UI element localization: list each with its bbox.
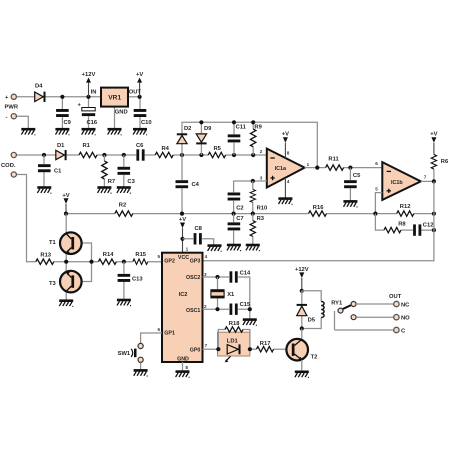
svg-text:D4: D4 xyxy=(35,84,43,90)
ground C5 xyxy=(343,201,357,207)
svg-text:C14: C14 xyxy=(240,270,251,276)
ground IC2 xyxy=(176,372,190,378)
svg-text:C8: C8 xyxy=(195,226,203,232)
ground C9 xyxy=(55,129,69,135)
svg-text:SW1: SW1 xyxy=(118,351,131,357)
svg-text:T1: T1 xyxy=(49,240,57,246)
capacitor C10 xyxy=(134,109,147,117)
node junction D4-C9 xyxy=(60,95,64,99)
svg-text:VR1: VR1 xyxy=(108,95,121,102)
terminal NO xyxy=(394,315,410,322)
svg-text:+V: +V xyxy=(179,217,186,223)
power +V IC1a pin 8 xyxy=(282,131,290,158)
wire IC1b output down to GP3 xyxy=(203,181,434,260)
terminal COD+ xyxy=(11,152,16,157)
svg-text:C5: C5 xyxy=(353,173,361,179)
ground VR1 xyxy=(108,129,122,135)
capacitor C12 xyxy=(413,224,421,235)
power +V (VR1 out) xyxy=(136,72,143,97)
capacitor C8 xyxy=(183,226,214,245)
svg-text:D1: D1 xyxy=(57,143,65,149)
svg-text:R11: R11 xyxy=(328,156,339,162)
terminal C xyxy=(394,327,406,334)
svg-text:C4: C4 xyxy=(192,182,200,188)
power +V bias xyxy=(62,193,69,214)
svg-text:R6: R6 xyxy=(441,159,449,165)
wire GP0 net xyxy=(203,348,292,350)
svg-text:R17: R17 xyxy=(260,341,271,347)
svg-text:R4: R4 xyxy=(162,146,170,152)
svg-text:X1: X1 xyxy=(227,292,235,298)
resistor R14 xyxy=(98,259,116,264)
ground C10 xyxy=(133,129,147,135)
svg-text:R16: R16 xyxy=(313,205,324,211)
terminal COD- xyxy=(11,172,16,177)
svg-text:8: 8 xyxy=(287,151,290,156)
svg-text:C15: C15 xyxy=(240,302,251,308)
svg-text:LD1: LD1 xyxy=(227,338,239,344)
svg-text:OUT: OUT xyxy=(129,89,142,95)
node junction C15 right xyxy=(248,307,252,311)
resistor R1 xyxy=(79,152,97,157)
wire GP1 to SW1 xyxy=(141,333,162,343)
node junction R10 top xyxy=(251,179,255,183)
node junction R7 xyxy=(102,153,106,157)
capacitor C2 xyxy=(228,193,241,201)
svg-text:GND: GND xyxy=(177,356,189,362)
resistor R6 xyxy=(431,155,449,182)
svg-text:C9: C9 xyxy=(64,120,72,126)
svg-text:C16: C16 xyxy=(87,120,98,126)
wire T3 to ground xyxy=(65,291,67,300)
transistor T2 xyxy=(286,339,317,361)
svg-text:+V: +V xyxy=(136,72,143,78)
node junction pin5/R12/R8 xyxy=(373,212,377,216)
node junction D9 bottom xyxy=(199,153,203,157)
ground SW1 xyxy=(134,370,148,376)
svg-text:T2: T2 xyxy=(311,354,318,360)
svg-text:C7: C7 xyxy=(236,216,243,222)
diode D4 xyxy=(35,84,45,102)
svg-text:+V: +V xyxy=(62,193,69,199)
capacitor C13 xyxy=(118,262,144,300)
svg-text:+V: +V xyxy=(282,131,289,137)
svg-text:PWR: PWR xyxy=(5,104,19,110)
node junction C12 right xyxy=(432,228,436,232)
ground C7 xyxy=(227,245,241,251)
wire PWR+ input net to VR1 IN xyxy=(16,96,101,98)
ground C16 xyxy=(82,129,96,135)
wire feedback top net xyxy=(182,122,317,167)
svg-text:+12V: +12V xyxy=(82,72,96,78)
svg-text:7: 7 xyxy=(424,174,427,179)
ground R7 xyxy=(97,188,111,194)
svg-text:R5: R5 xyxy=(214,146,222,152)
node junction coil bottom/T2 collector xyxy=(300,326,304,330)
svg-text:C6: C6 xyxy=(136,143,144,149)
node junction X1 bottom xyxy=(215,307,219,311)
svg-text:OSC1: OSC1 xyxy=(186,308,200,314)
resistor R9 xyxy=(251,122,263,155)
svg-text:R2: R2 xyxy=(119,203,126,209)
node junction C1 xyxy=(42,153,46,157)
svg-text:C1: C1 xyxy=(54,168,62,174)
switch SW1 xyxy=(118,343,144,370)
resistor R10 xyxy=(250,181,267,214)
ground C3 xyxy=(117,188,131,194)
wire D5 leads xyxy=(301,291,303,329)
LED module LD1 xyxy=(218,332,250,362)
svg-text:R12: R12 xyxy=(400,204,411,210)
svg-text:7: 7 xyxy=(205,343,208,348)
capacitor C6 xyxy=(136,149,144,160)
ground C14/C15 xyxy=(243,320,257,326)
power +V VCC IC2 xyxy=(179,217,186,253)
node junction LD1 left xyxy=(216,347,220,351)
svg-text:IC2: IC2 xyxy=(179,292,188,298)
wire C10 leads xyxy=(139,97,141,129)
ground C13 xyxy=(117,300,131,306)
svg-text:8: 8 xyxy=(185,365,188,370)
node junction C11 bottom xyxy=(232,153,236,157)
resistor R2 xyxy=(115,211,133,216)
node junction output IC1a xyxy=(315,166,319,170)
node junction C13 xyxy=(122,260,126,264)
svg-text:GP2: GP2 xyxy=(164,258,175,264)
svg-text:2: 2 xyxy=(204,304,207,309)
node junction VCC/C8 xyxy=(180,237,184,241)
terminal PWR - xyxy=(11,114,16,119)
resistor R18 xyxy=(218,327,250,349)
ground IC1a pin4 xyxy=(278,199,292,205)
svg-text:R13: R13 xyxy=(40,253,51,259)
wire IC1a pin 3 net xyxy=(234,181,267,214)
svg-text:C12: C12 xyxy=(423,222,434,228)
capacitor C16 electrolytic xyxy=(78,103,98,127)
wire C16 leads xyxy=(88,97,90,129)
svg-text:R14: R14 xyxy=(103,252,114,258)
svg-text:D2: D2 xyxy=(184,126,191,132)
power +V R6 xyxy=(430,131,437,154)
svg-text:R1: R1 xyxy=(83,143,91,149)
pin 4 IC1a to ground xyxy=(285,178,290,198)
wire T2 emitter xyxy=(301,360,303,371)
resistor R11 xyxy=(326,165,344,170)
svg-text:IC1b: IC1b xyxy=(391,180,403,186)
capacitor C15 xyxy=(230,304,238,315)
diode D1 xyxy=(56,143,66,160)
wire IC1b pin5 to bias rail xyxy=(375,193,382,214)
wire IC1b output xyxy=(421,180,434,182)
svg-text:IN: IN xyxy=(91,89,97,95)
capacitor C14 xyxy=(230,271,238,282)
capacitor C3 xyxy=(118,155,136,187)
ground T3 xyxy=(59,301,73,307)
svg-text:6: 6 xyxy=(375,161,378,166)
relay coil RY1 xyxy=(302,291,343,329)
capacitor C5 xyxy=(344,168,361,201)
resistor R12 xyxy=(397,211,414,216)
svg-text:1: 1 xyxy=(186,246,189,251)
svg-text:VCC: VCC xyxy=(178,255,189,261)
svg-text:NC: NC xyxy=(401,302,410,308)
node junction R9 top xyxy=(251,120,255,124)
svg-text:R7: R7 xyxy=(108,179,115,185)
node junction C4 bias xyxy=(180,212,184,216)
ground PWR- xyxy=(21,129,35,135)
power +12V relay xyxy=(295,267,309,291)
wire output node IC1a to R11 and IC1b pin6 xyxy=(305,167,383,169)
svg-text:D9: D9 xyxy=(204,126,212,132)
node junction R9 bottom xyxy=(251,153,255,157)
wire VR1 GND lead xyxy=(114,107,116,129)
ground T2 xyxy=(295,372,309,378)
node junction OUT/C10 xyxy=(138,95,142,99)
relay NO contact xyxy=(351,315,394,320)
capacitor C11 xyxy=(228,122,247,155)
wire OSC1 net xyxy=(203,309,250,319)
resistor R3 xyxy=(250,214,265,245)
svg-text:GP3: GP3 xyxy=(190,258,201,264)
resistor R4 xyxy=(155,152,173,157)
node junction C2/C7 xyxy=(232,212,236,216)
svg-text:R9: R9 xyxy=(254,125,262,131)
svg-text:OSC2: OSC2 xyxy=(186,275,200,281)
svg-text:C3: C3 xyxy=(127,179,135,185)
pin 8 IC2 GND lead xyxy=(182,362,184,371)
node junction C16/+12V xyxy=(86,95,90,99)
node junction LD1 right xyxy=(248,347,252,351)
svg-text:C11: C11 xyxy=(236,125,247,131)
node junction C11 top xyxy=(232,120,236,124)
regulator VR1 xyxy=(91,88,142,116)
relay switch pivot xyxy=(335,302,357,331)
svg-text:3: 3 xyxy=(204,272,207,277)
IC2 box xyxy=(162,253,203,363)
svg-text:R15: R15 xyxy=(135,252,146,258)
resistor R17 xyxy=(256,347,273,352)
svg-text:OUT: OUT xyxy=(389,294,402,300)
wire R8/C12 branch xyxy=(375,214,434,231)
wire C contact xyxy=(335,329,394,331)
svg-text:R3: R3 xyxy=(257,216,265,222)
node junction R10/R3 xyxy=(251,212,255,216)
op-amp IC1b xyxy=(382,162,421,200)
svg-text:1: 1 xyxy=(307,162,310,167)
node junction C5 xyxy=(348,166,352,170)
node junction T1/T3/R13 xyxy=(64,260,68,264)
svg-text:2: 2 xyxy=(260,149,263,154)
wire base bus T1/T3 xyxy=(74,243,91,282)
wire T1-T3 middle junction leads xyxy=(65,253,67,271)
power +12V xyxy=(82,72,96,97)
resistor R8 xyxy=(384,227,401,232)
ground C1 xyxy=(37,188,51,194)
svg-text:C10: C10 xyxy=(141,120,152,126)
svg-text:C2: C2 xyxy=(236,205,243,211)
wire C9 leads xyxy=(61,97,63,129)
svg-text:RY1: RY1 xyxy=(331,300,343,306)
node junction R12 right xyxy=(432,212,436,216)
resistor R15 xyxy=(133,259,148,264)
svg-text:GND: GND xyxy=(115,109,128,115)
wire VR1 OUT net xyxy=(128,96,140,98)
node junction C3 xyxy=(122,153,126,157)
capacitor C7 xyxy=(228,214,244,245)
wire T1 top lead xyxy=(65,214,67,234)
wire NC contact xyxy=(356,303,394,305)
wire OSC2 net xyxy=(203,277,250,309)
svg-text:R8: R8 xyxy=(398,222,406,228)
capacitor C9 xyxy=(56,109,69,117)
svg-text:4: 4 xyxy=(287,179,290,184)
svg-text:GP0: GP0 xyxy=(190,348,201,354)
svg-text:C13: C13 xyxy=(132,276,143,282)
transistor T1 xyxy=(49,232,82,254)
svg-text:5: 5 xyxy=(157,254,160,259)
node junction D2/C4 xyxy=(180,153,184,157)
wire COD- to R13 xyxy=(16,175,35,262)
resistor R13 xyxy=(36,259,54,264)
transistor T3 xyxy=(49,271,82,293)
crystal X1 xyxy=(210,277,235,309)
resistor R16 xyxy=(309,211,327,216)
svg-text:5: 5 xyxy=(375,186,378,191)
node junction +V/R2/T1 xyxy=(64,212,68,216)
diode D9 xyxy=(196,122,212,155)
svg-text:R10: R10 xyxy=(257,205,268,211)
svg-text:T3: T3 xyxy=(49,281,57,287)
svg-text:IC1a: IC1a xyxy=(275,166,287,172)
wire T1/T3 base-emitter net row xyxy=(36,261,162,263)
svg-text:COD.: COD. xyxy=(1,163,16,169)
diode D2 xyxy=(177,126,192,155)
svg-text:+12V: +12V xyxy=(295,267,309,273)
svg-text:NO: NO xyxy=(401,316,410,322)
wire PWR- to ground xyxy=(16,116,28,128)
op-amp IC1a xyxy=(267,149,305,188)
svg-text:+V: +V xyxy=(430,131,437,137)
capacitor C4 xyxy=(176,155,200,214)
svg-text:4: 4 xyxy=(205,254,208,259)
wire COD+ signal net row xyxy=(16,154,266,156)
svg-text:6: 6 xyxy=(157,327,160,332)
capacitor C1 xyxy=(38,155,62,187)
diode D5 xyxy=(297,305,316,324)
node junction D5/coil top xyxy=(300,289,304,293)
ground R3 xyxy=(246,245,260,251)
svg-text:GP1: GP1 xyxy=(164,331,175,337)
terminal PWR + xyxy=(11,94,16,99)
resistor R7 xyxy=(102,155,115,187)
svg-text:3: 3 xyxy=(260,176,263,181)
node junction X1 top xyxy=(215,275,219,279)
terminal NC xyxy=(394,301,410,308)
svg-text:D5: D5 xyxy=(308,318,316,324)
svg-text:-: - xyxy=(6,114,8,120)
node junction base bus xyxy=(89,260,93,264)
wire bias rail xyxy=(66,213,434,215)
node junction output IC1b xyxy=(432,179,436,183)
wire T2 collector xyxy=(301,329,303,340)
ground C8 xyxy=(208,246,222,252)
resistor R5 xyxy=(208,152,225,157)
node junction D9 top xyxy=(199,120,203,124)
